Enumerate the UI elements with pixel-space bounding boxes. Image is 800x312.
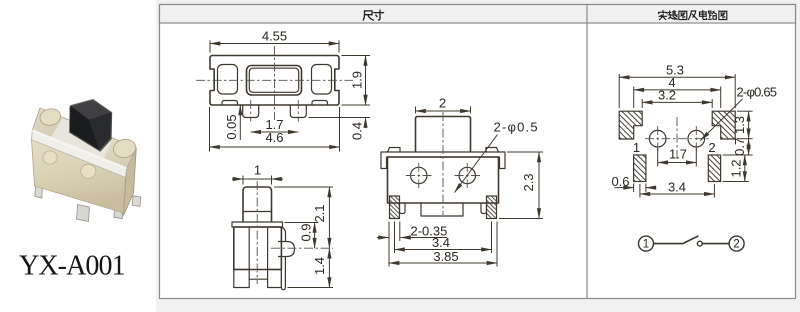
- dim 1.3 line: [748, 111, 750, 139]
- header label left: 尺寸: [363, 10, 383, 20]
- svg-text:1.9: 1.9: [350, 71, 365, 89]
- terminal 2 circle: [729, 236, 744, 251]
- dim 1 extension lines: [242, 176, 244, 185]
- front face dome 2: [81, 164, 96, 178]
- glyph 图: [719, 11, 727, 19]
- front view flange inner: [381, 157, 505, 169]
- svg-text:1.4: 1.4: [312, 257, 327, 275]
- pad top-left hatched: [619, 111, 642, 139]
- switch body right side face: [124, 148, 137, 216]
- hole right vertical tick: [695, 126, 697, 152]
- glyph 装: [668, 11, 677, 20]
- leg right-front: [114, 205, 123, 219]
- plunger cap line: [243, 211, 272, 213]
- bottom ext lines legs: [388, 222, 390, 267]
- top view center window outer: [247, 66, 302, 96]
- switch top face plate: [32, 108, 136, 169]
- top view leg right: [290, 105, 306, 118]
- top view center window inner: [249, 68, 298, 92]
- dim 0.6 arrows: [615, 187, 634, 189]
- dim 1.4 line: [328, 248, 330, 287]
- header label right: 安装图及电路图: [659, 10, 727, 19]
- svg-text:2-φ0.65: 2-φ0.65: [737, 85, 777, 100]
- svg-text:2.1: 2.1: [312, 204, 327, 222]
- front view drawing: [377, 96, 543, 267]
- front face dome 1: [43, 151, 57, 164]
- svg-text:2: 2: [708, 140, 715, 155]
- leader 2-phi0.65: [701, 99, 743, 141]
- dim 0.4 arrows outside: [365, 95, 367, 106]
- top view vertical centerline: [274, 46, 276, 120]
- svg-text:0.6: 0.6: [611, 174, 629, 189]
- svg-text:YX-A001: YX-A001: [19, 251, 125, 282]
- top view bottom bump left: [222, 101, 238, 106]
- top view left contact: [218, 65, 238, 95]
- switch lever: [682, 236, 699, 244]
- leg centerline left: [250, 100, 252, 122]
- leg front-center: [77, 205, 90, 222]
- svg-text:4.55: 4.55: [262, 29, 287, 44]
- side view nub centerline: [271, 247, 333, 249]
- front view small tab right: [481, 203, 487, 214]
- label 2-0.35 leader: [401, 237, 448, 239]
- svg-text:3.4: 3.4: [668, 180, 686, 195]
- svg-text:1: 1: [254, 163, 261, 178]
- svg-text:1.3: 1.3: [732, 116, 747, 134]
- side view cover flap: [272, 227, 286, 241]
- ext line legs bottom: [288, 287, 334, 289]
- front view hatched leg left: [390, 196, 400, 219]
- svg-text:0.05: 0.05: [224, 114, 239, 139]
- top view leg left: [243, 105, 259, 118]
- side view drawing: [232, 163, 333, 290]
- svg-text:4.6: 4.6: [265, 130, 283, 145]
- product photo: [32, 100, 141, 222]
- dim 2 line: [416, 110, 471, 112]
- top view drawing: [196, 29, 370, 152]
- glyph 尺: [363, 11, 373, 20]
- svg-text:3.2: 3.2: [658, 88, 676, 103]
- side view leg right: [268, 270, 282, 288]
- ext line flange top: [285, 222, 319, 224]
- leg centerline right: [297, 100, 299, 122]
- button base shadow: [69, 100, 112, 152]
- dim 1 arrows outside: [232, 178, 243, 180]
- dim 4.55 line: [210, 43, 339, 45]
- side view vertical centerline: [256, 181, 258, 284]
- dim 2 extension lines: [415, 107, 417, 114]
- svg-text:2: 2: [733, 239, 739, 251]
- dim 0.7 line: [748, 139, 750, 155]
- dim 4.55 extension lines: [209, 41, 211, 53]
- hole left: [649, 130, 666, 147]
- dim 1 inner line: [243, 178, 272, 180]
- dim 0.05 leader arrow: [239, 105, 241, 140]
- pad top-right hatched: [712, 111, 735, 139]
- front view small tab left: [400, 203, 406, 214]
- top view horizontal centerline: [196, 79, 353, 81]
- side view nub: [278, 242, 295, 257]
- side view body: [234, 227, 282, 270]
- button top edge highlight: [70, 100, 111, 113]
- svg-text:3.4: 3.4: [432, 235, 450, 250]
- dim 4.6 extension lines: [209, 107, 211, 152]
- switch contact: [697, 241, 702, 246]
- white photo area left: [0, 0, 156, 312]
- dim 3.2 line: [642, 101, 712, 103]
- ext line button top: [274, 186, 333, 188]
- wire left: [654, 243, 683, 245]
- front view hole right crosshair: [455, 175, 481, 177]
- svg-text:1.2: 1.2: [728, 159, 743, 177]
- dim 2.3 line: [538, 152, 540, 219]
- svg-text:3.85: 3.85: [433, 249, 458, 264]
- dim 3.85 line: [389, 262, 497, 264]
- column divider: [586, 5, 588, 299]
- svg-text:0.7: 0.7: [732, 138, 747, 156]
- top left dome: [38, 107, 62, 127]
- svg-text:0.4: 0.4: [350, 122, 365, 140]
- glyph 寸: [374, 10, 384, 20]
- dim 0.4 extension line: [309, 117, 371, 119]
- glyph 电: [699, 11, 706, 20]
- pcb land pattern: [611, 63, 776, 198]
- leg front-right: [107, 188, 116, 203]
- dim 1.9 line: [365, 56, 367, 106]
- pad 1 bottom-left hatched: [634, 155, 646, 182]
- dim 3.4 line pcb: [640, 193, 715, 195]
- black button front-left face: [70, 106, 100, 150]
- front view body: [388, 157, 499, 203]
- black button top face: [70, 100, 111, 120]
- svg-text:1: 1: [633, 140, 640, 155]
- glyph 安: [659, 10, 667, 19]
- dim 3.4 line: [395, 249, 492, 251]
- center vertical centerline: [676, 117, 678, 161]
- dim 1.7 line: [658, 162, 697, 164]
- front view top tab left: [388, 148, 401, 153]
- dim 3.4 ext lines: [639, 184, 641, 198]
- black button right face: [89, 112, 111, 150]
- right ext lines: [737, 110, 753, 112]
- top view right contact: [312, 65, 332, 95]
- glyph 图: [679, 11, 687, 19]
- dim 3.2 ext lines: [641, 99, 643, 108]
- right dome: [112, 137, 138, 159]
- svg-text:2.3: 2.3: [521, 173, 536, 191]
- leader 2-phi0.5: [455, 135, 498, 193]
- front view hatched leg right: [487, 196, 497, 219]
- leg left-back: [39, 164, 43, 179]
- front view top tab right: [486, 148, 499, 153]
- dim 2.3 extension lines: [507, 151, 543, 153]
- wire right: [702, 243, 729, 245]
- svg-text:1.7: 1.7: [669, 147, 687, 162]
- svg-text:2-φ0.5: 2-φ0.5: [494, 120, 539, 135]
- side view inner line right: [267, 227, 269, 270]
- pad 2 bottom-right hatched: [708, 155, 720, 182]
- top plate cream left end: [34, 109, 64, 139]
- dim 5.3 line: [619, 76, 735, 78]
- circuit diagram: [639, 236, 745, 251]
- svg-text:1: 1: [643, 239, 649, 251]
- glyph 路: [708, 11, 716, 19]
- hole left vertical tick: [657, 126, 659, 152]
- side view flange: [232, 222, 283, 227]
- dim 1.2 line: [744, 155, 746, 182]
- side view leg left: [234, 270, 249, 288]
- switch body front face: [32, 140, 126, 214]
- leg right-back: [132, 196, 141, 207]
- dim 0.9 line: [314, 223, 316, 249]
- leg left-front: [35, 185, 43, 199]
- front view button: [416, 117, 471, 153]
- top view body outline: [210, 56, 339, 106]
- svg-text:0.9: 0.9: [299, 223, 314, 241]
- switch front metal band: [32, 131, 127, 178]
- front view vertical centerline: [442, 112, 444, 215]
- front view bottom boss: [421, 203, 463, 216]
- front view hole right: [459, 167, 475, 183]
- dim 0.6 ticks: [633, 184, 635, 193]
- side view front terminal strip: [281, 257, 285, 290]
- dim 1.7 line: [251, 131, 299, 133]
- top plate front edge highlight: [32, 131, 126, 169]
- dim 4 ext lines: [633, 87, 635, 109]
- dim 1.9 extension lines: [342, 55, 371, 57]
- terminal 1 circle: [639, 236, 654, 251]
- side view back leg line: [249, 278, 267, 280]
- top plate cream right end: [104, 140, 136, 169]
- table outer frame: [160, 5, 796, 299]
- dim 4.6 line: [210, 146, 340, 148]
- dim 4 line: [634, 89, 721, 91]
- dim 2.1 line: [328, 187, 330, 248]
- table header band: [160, 5, 796, 24]
- front view hole left: [411, 167, 427, 183]
- hole right: [688, 130, 705, 147]
- svg-text:2: 2: [439, 96, 446, 111]
- front view hole left crosshair: [406, 175, 432, 177]
- top view bottom bump right: [312, 101, 328, 106]
- side view inner line left: [248, 227, 250, 270]
- front view flange outer: [381, 152, 505, 169]
- dim 1.7 ext dashes: [657, 148, 659, 167]
- dim 5.3 ext lines: [618, 74, 620, 108]
- holes horizontal centerline: [645, 138, 709, 140]
- glyph 及: [688, 11, 697, 20]
- side view plunger: [243, 187, 272, 222]
